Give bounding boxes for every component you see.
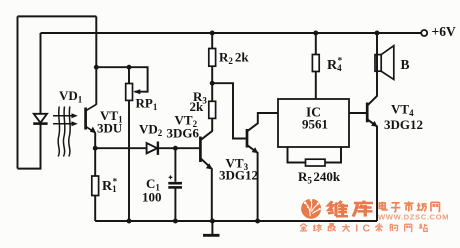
transistor VT4 [367, 103, 377, 127]
svg-text:WWW.DZSC.COM: WWW.DZSC.COM [378, 212, 449, 221]
node: R2-R3 junction [210, 81, 215, 86]
wire: IC bottom left stub to R5 [288, 147, 306, 163]
wire: VD1 anode up to +6V rail [40, 33, 42, 114]
ground symbol bar [203, 234, 220, 237]
phototransistor VT1 [86, 104, 97, 133]
node: VT1 collector junction [94, 65, 99, 70]
svg-text:100: 100 [142, 189, 162, 204]
node: VT3 emitter ground junction [255, 219, 260, 224]
wire: collector node to RP1 top and wiper loop [96, 67, 147, 92]
wire: VT3 emitter to ground rail [247, 145, 257, 221]
resistor R2 [209, 49, 216, 67]
wire: R3 bottom to VT2 collector [201, 118, 212, 139]
wire: VT1 collector column [95, 16, 97, 104]
watermark logo circle [301, 198, 321, 218]
node: RP1 ground rail junction [127, 219, 132, 224]
svg-text:3DG12: 3DG12 [219, 167, 258, 182]
transistor VT3 [247, 129, 258, 153]
wire: speaker / VT4 collector column [367, 33, 377, 105]
node: VT2 emitter ground junction [210, 219, 215, 224]
wire: VT4 emitter down to ground rail [367, 119, 377, 221]
wire: R2 top lead from +6V rail [211, 33, 213, 49]
wire: VT1 emitter node horizontal to VD2 and VT2 base [95, 133, 146, 148]
wire: R1 leads [94, 148, 96, 176]
svg-text:C: C [363, 222, 371, 234]
watermark [300, 198, 449, 234]
ground [211, 221, 213, 235]
node: C1 ground rail junction [173, 219, 178, 224]
wire: R4 top lead from +6V rail [315, 33, 317, 55]
node: VD2-C1-VT2 base junction [173, 146, 178, 151]
wire: RP1 bottom lead to ground rail [128, 100, 130, 221]
svg-text:R5240k: R5240k [298, 169, 341, 186]
speaker B [375, 46, 394, 80]
node: VT1 emitter junction [93, 146, 98, 151]
svg-text:2k: 2k [190, 99, 205, 114]
wire: IC output to VT4 base [349, 112, 366, 114]
resistor R3 [209, 101, 216, 118]
svg-text:R*4: R*4 [327, 56, 343, 74]
wire: VT2 emitter down to ground rail [201, 159, 212, 221]
wire: R4 bottom lead to IC top [315, 72, 317, 100]
wire: node to VT3 base [212, 83, 246, 138]
svg-text:3DG12: 3DG12 [384, 117, 423, 132]
resistor R4 [312, 55, 319, 72]
+6V terminal [421, 30, 427, 36]
node: R2 top rail junction [210, 31, 215, 36]
wire: VT3 collector to IC input [247, 113, 278, 131]
watermark big text 维库 [328, 201, 373, 217]
node: RP1 top junction [127, 65, 132, 70]
wire: R2 to R3 with node [211, 66, 213, 101]
wire: C1 bottom lead [174, 188, 176, 221]
svg-text:R22k: R22k [219, 50, 249, 67]
capacitor C1 [168, 175, 182, 187]
wire: outer bottom to VD1 column [18, 123, 41, 168]
watermark slogan 全球最大IC采购网站 [300, 222, 427, 234]
wire: bottom ground rail [95, 220, 377, 222]
svg-text:3DU: 3DU [97, 120, 123, 135]
wire: C1 top lead [174, 148, 176, 182]
resistor R1 [92, 176, 99, 196]
potentiometer RP1 [126, 84, 141, 101]
light arrows into VT1 [53, 107, 78, 157]
node: R4 top rail junction [313, 31, 318, 36]
op-amp IC 9561 box [278, 99, 349, 147]
wire: +6V top rail [41, 32, 422, 34]
svg-text:I: I [355, 222, 358, 234]
node: speaker top rail junction [375, 31, 380, 36]
transistor VT2 [200, 137, 212, 170]
watermark text 电子市场网 [379, 201, 439, 211]
svg-text:B: B [401, 57, 410, 72]
diode VD2 [147, 142, 158, 155]
svg-text:R*1: R*1 [102, 177, 118, 195]
wire: RP1 top lead [128, 67, 130, 83]
svg-text:9561: 9561 [302, 117, 328, 132]
photodiode VD1 [33, 114, 47, 124]
svg-text:3DG6: 3DG6 [167, 125, 200, 140]
wire: outer left vertical [17, 16, 19, 168]
wire: R5 to IC bottom right stub [325, 147, 341, 163]
svg-text:+6V: +6V [432, 24, 456, 39]
resistor R5 [306, 159, 326, 166]
wire: outer top rail [18, 15, 97, 17]
